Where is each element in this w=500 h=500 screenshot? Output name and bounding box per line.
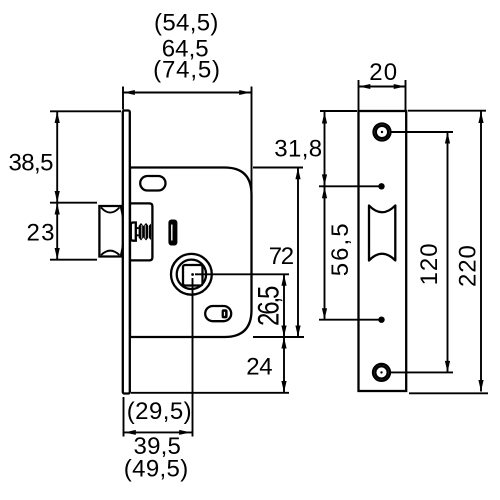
svg-text:220: 220 (455, 246, 482, 288)
svg-text:38,5: 38,5 (9, 149, 54, 176)
svg-text:72: 72 (269, 243, 294, 270)
svg-text:56,5: 56,5 (327, 224, 354, 277)
svg-text:31,8: 31,8 (274, 135, 322, 162)
svg-text:20: 20 (369, 59, 397, 86)
svg-text:23: 23 (27, 220, 55, 247)
svg-text:24: 24 (246, 353, 272, 380)
svg-text:(49,5): (49,5) (124, 456, 188, 483)
svg-text:(54,5): (54,5) (154, 10, 218, 37)
svg-text:26,5: 26,5 (252, 286, 285, 326)
svg-text:(74,5): (74,5) (153, 56, 220, 83)
svg-text:(29,5): (29,5) (127, 398, 192, 425)
svg-text:120: 120 (416, 244, 443, 286)
